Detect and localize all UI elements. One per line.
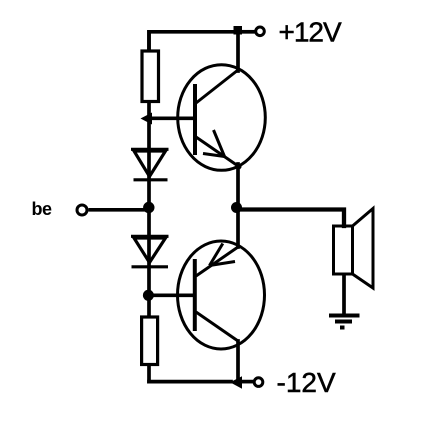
junction output node [231, 202, 242, 213]
wire base Q2 [149, 293, 193, 297]
wire collector Q1 [236, 32, 240, 71]
wire emitter Q2 [236, 210, 240, 248]
diode D1 [131, 149, 169, 180]
wire base Q1 [149, 116, 193, 120]
ground [329, 316, 360, 328]
wire to -12V terminal [242, 380, 254, 384]
junction base Q2 [143, 290, 154, 301]
junction bottom rail at collector Q2 (arrow) [230, 376, 242, 389]
wire top rail [149, 32, 238, 50]
terminal -12V [254, 378, 263, 387]
wire output node to speaker [238, 210, 344, 227]
junction base Q1 (arrow) [141, 113, 153, 125]
wire be input [89, 208, 150, 212]
resistor R2 [142, 317, 158, 365]
wire emitter Q1 [236, 164, 240, 210]
junction top rail at collector Q1 [234, 26, 243, 35]
svg-text:be: be [32, 199, 52, 219]
junction input node [143, 202, 154, 213]
terminal +12V [256, 27, 265, 36]
wire speaker to ground [342, 274, 346, 314]
wire to +12V terminal [242, 30, 255, 34]
terminal be [77, 205, 87, 215]
resistor R1 [142, 51, 159, 102]
wire bottom rail [149, 380, 231, 384]
diode D2 [131, 236, 169, 266]
wire collector Q2 [236, 341, 240, 382]
transistor Q1 (NPN) [178, 65, 266, 171]
wire left column (vertical) [147, 32, 151, 382]
transistor Q2 (PNP) [178, 241, 265, 349]
speaker LS1 [334, 209, 374, 289]
svg-text:-12V: -12V [277, 367, 336, 398]
svg-text:+12V: +12V [279, 16, 342, 47]
